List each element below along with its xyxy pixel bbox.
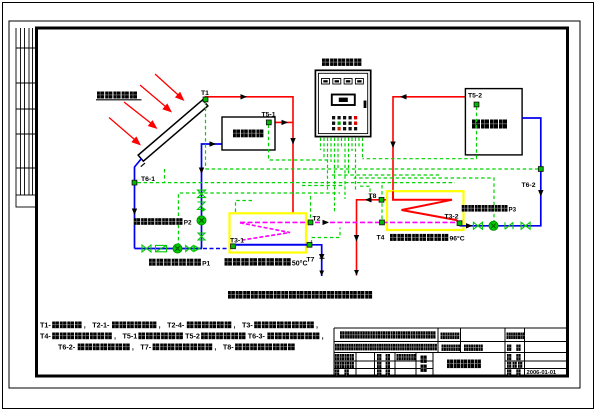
blue pipe: storage exchanger to high-temp tank via P3 xyxy=(460,118,541,226)
control wire step x=164.5 xyxy=(164,169,166,183)
tick next to T7 xyxy=(320,256,325,262)
control wire bus y=175 xyxy=(332,174,440,176)
svg-text:50°C: 50°C xyxy=(292,259,308,267)
red pipe: collector T1 to riser down to preheat unit xyxy=(206,97,294,213)
flow arrow down on P2 riser xyxy=(199,168,204,175)
control wire T2 drop xyxy=(310,196,312,220)
svg-text:T3-2: T3-2 xyxy=(445,214,459,221)
sensor node T6-2 xyxy=(538,167,543,172)
gate valve on P2 riser upper xyxy=(198,190,206,198)
svg-text:T4-: T4- xyxy=(40,332,51,341)
diagram caption 太阳能光热+预热+谷电蓄热装置连接原理图 xyxy=(228,291,372,299)
blue pipe: dashed link to preheat exchanger inlet xyxy=(203,248,233,250)
flow arrow pointing left on tank pipe xyxy=(400,94,407,99)
svg-text:,: , xyxy=(316,321,318,330)
svg-text:T7-: T7- xyxy=(140,343,151,352)
control wire bus y=185.5 xyxy=(302,185,345,187)
svg-text:T2-1-: T2-1- xyxy=(92,321,110,330)
sensor node T1 xyxy=(203,97,208,102)
flow arrow down on riser x=393 xyxy=(390,142,395,149)
flow arrow on magenta line xyxy=(323,220,330,225)
control wire P3 branch xyxy=(354,178,494,224)
svg-text:T8: T8 xyxy=(369,193,377,200)
blue pipe: pump run along bottom xyxy=(135,248,203,250)
svg-text:,: , xyxy=(84,321,86,330)
flow arrow down on riser x=293 xyxy=(290,138,295,145)
gate valve after P1 xyxy=(186,246,194,252)
check valve on P2 riser xyxy=(198,202,206,211)
sensor node T2 xyxy=(308,220,313,225)
blue pipe: P2 riser up to low-temp tank xyxy=(202,144,223,249)
sensor node T4 xyxy=(380,220,385,225)
label 蓄热换热一体装置96°C xyxy=(390,234,448,241)
svg-text:,: , xyxy=(214,343,216,352)
sensor node T5-1 xyxy=(266,120,271,125)
flow arrow down on x=540.8 riser xyxy=(538,190,543,197)
signature strip grid (left margin) xyxy=(16,28,36,207)
control wire T1 drop xyxy=(205,102,207,170)
label 太阳能光热 (sun label) xyxy=(97,92,137,99)
control wire T5-2 drop xyxy=(363,107,477,159)
control wire T4 drop xyxy=(381,185,383,220)
control wire P1 branch xyxy=(178,193,340,247)
sensor node T3-2 xyxy=(457,221,462,226)
control cabinet 智能控制柜 label xyxy=(322,59,361,66)
control wire T7 branch xyxy=(312,228,341,244)
check valve right of P3 xyxy=(505,222,513,229)
svg-text:T5-2: T5-2 xyxy=(185,332,200,341)
blue pipe inside preheat exchanger xyxy=(236,244,310,246)
flow arrow left on T8 line xyxy=(365,197,372,202)
high-temp storage tank 高温储热 xyxy=(465,89,522,155)
main drawing frame (thick) xyxy=(37,28,568,376)
storage exchanger unit box (yellow) xyxy=(387,191,464,230)
svg-text:T5-2: T5-2 xyxy=(468,93,482,100)
pipe end arrowhead blue drop xyxy=(319,271,324,277)
svg-text:T7: T7 xyxy=(307,257,315,264)
control wire fan under cabinet xyxy=(321,138,363,213)
flow arrow on T5-1 link xyxy=(282,120,289,125)
flow arrow on riser into tank xyxy=(210,141,217,146)
svg-text:T5-1: T5-1 xyxy=(122,332,137,341)
flow arrow down on x=356 drop xyxy=(354,235,359,242)
label 低温储热循环泵P2 xyxy=(134,218,183,225)
strainer symbol on pump run xyxy=(156,245,167,251)
control wire T3-1 drop xyxy=(236,201,253,214)
gate valve right of check valve xyxy=(521,222,530,229)
svg-text:T1-: T1- xyxy=(40,321,51,330)
pump P3 高温储热循环泵 xyxy=(489,221,498,230)
gate valve on pump run xyxy=(142,245,151,252)
svg-text:,: , xyxy=(114,332,116,341)
svg-text:P1: P1 xyxy=(202,260,210,267)
blue pipe: T7 outlet down to load xyxy=(310,245,322,276)
svg-text:T1: T1 xyxy=(201,90,209,97)
red pipe: high-temp tank to storage exchanger xyxy=(393,97,465,200)
title block texts xyxy=(340,331,436,338)
solar collector panel xyxy=(134,100,210,167)
svg-text:,: , xyxy=(233,321,235,330)
svg-text:T4: T4 xyxy=(377,235,385,242)
flow arrow down on collector return leg xyxy=(132,209,137,216)
svg-text:,: , xyxy=(132,343,134,352)
control wire T8 branch xyxy=(360,186,370,198)
svg-text:P2: P2 xyxy=(184,220,192,227)
pump P1 集热循环泵 xyxy=(173,244,182,253)
svg-text:T5-1: T5-1 xyxy=(262,112,276,119)
svg-text:T2: T2 xyxy=(313,216,321,223)
svg-text:T6-3-: T6-3- xyxy=(248,332,266,341)
svg-text:T6-2-: T6-2- xyxy=(58,343,76,352)
blue pipe: collector return down leg xyxy=(135,159,142,249)
gate valve on P2 riser lower xyxy=(198,233,205,240)
control wire T5-1 drop xyxy=(269,125,331,161)
flow arrow down on T7 drop xyxy=(319,254,324,261)
magenta heat medium line xyxy=(240,221,460,223)
svg-text:T2-4-: T2-4- xyxy=(167,321,185,330)
small check arrow after P1 xyxy=(195,246,200,251)
svg-text:P3: P3 xyxy=(509,206,517,213)
sensor node T7 xyxy=(307,242,312,247)
svg-text:96°C: 96°C xyxy=(450,235,465,243)
svg-text:T8-: T8- xyxy=(223,343,234,352)
label 高温储热循环泵P3 xyxy=(462,205,508,212)
preheat exchanger unit box (yellow) xyxy=(230,213,307,252)
sensor node T8 xyxy=(379,197,384,202)
flow arrow right after T3-2 xyxy=(466,223,473,228)
svg-text:T6-2: T6-2 xyxy=(522,182,536,189)
magenta coil inside preheat exchanger xyxy=(240,223,290,240)
svg-text:T6-1: T6-1 xyxy=(141,176,155,183)
red pipe: T5-1 tank outlet link xyxy=(271,121,293,123)
svg-text:2006-01-01: 2006-01-01 xyxy=(527,370,557,376)
label 预热换热一体装置50°C xyxy=(225,258,291,265)
control wire T6-1 bus y=182.6 xyxy=(138,182,456,184)
sensor node T6-1 xyxy=(132,180,137,185)
sensor node T3-1 xyxy=(231,244,236,249)
title block grid xyxy=(334,328,566,375)
red pipe: T8 line down to load xyxy=(357,200,388,276)
sensor node T5-2 xyxy=(474,102,479,107)
gate valve left of P3 xyxy=(473,222,482,229)
sun rays (red arrows) xyxy=(109,74,185,146)
flow arrow on T1 pipe xyxy=(241,94,248,99)
red coil inside storage exchanger xyxy=(393,191,460,223)
control wire bus y=169 (T1 to T6-2) xyxy=(206,168,541,170)
svg-text:,: , xyxy=(159,321,161,330)
svg-text:T3-: T3- xyxy=(242,321,253,330)
svg-text:T3-1: T3-1 xyxy=(230,238,244,245)
control cabinet box xyxy=(315,70,370,136)
low-temp storage tank 低温储热 xyxy=(222,117,275,150)
label 集热循环泵P1 xyxy=(149,259,201,266)
pipe end arrowhead red drop xyxy=(354,270,359,276)
svg-text:,: , xyxy=(322,332,324,341)
pump P2 低温储热循环泵 xyxy=(197,216,206,225)
